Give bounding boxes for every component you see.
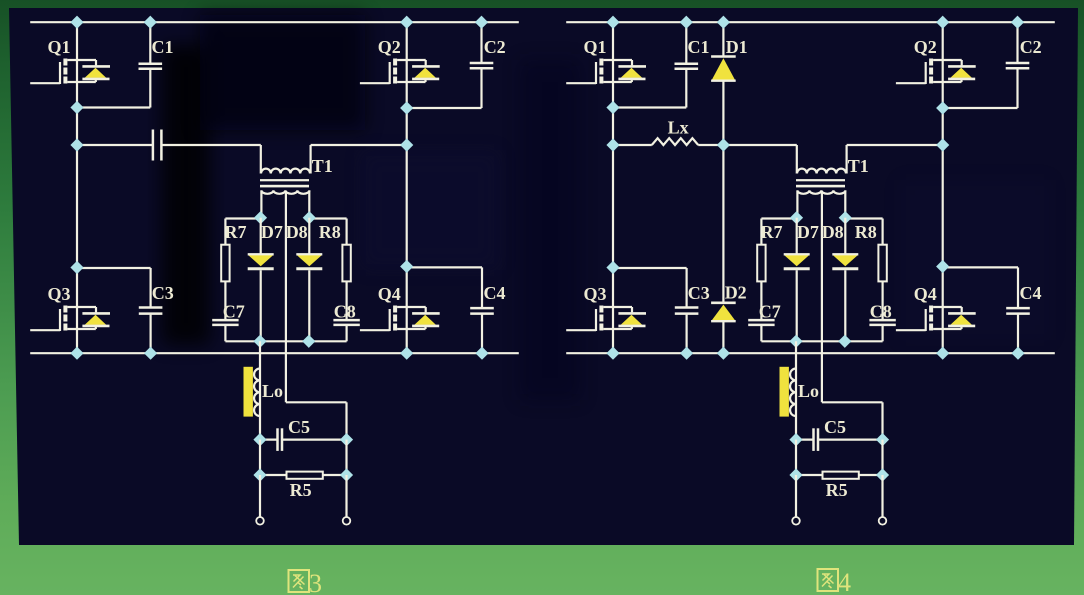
svg-text:Q1: Q1 [48, 37, 71, 57]
svg-text:Q1: Q1 [584, 37, 607, 57]
svg-text:D8: D8 [822, 222, 844, 242]
svg-text:R5: R5 [290, 480, 312, 500]
svg-text:R7: R7 [225, 222, 247, 242]
svg-text:R8: R8 [319, 222, 341, 242]
svg-text:C3: C3 [688, 283, 710, 303]
svg-text:D8: D8 [286, 222, 308, 242]
svg-text:Q4: Q4 [378, 284, 401, 304]
svg-text:R8: R8 [855, 222, 877, 242]
svg-text:D1: D1 [726, 37, 748, 57]
svg-text:C1: C1 [688, 37, 710, 57]
svg-text:T1: T1 [848, 156, 869, 176]
svg-text:3: 3 [309, 569, 322, 595]
svg-text:C4: C4 [484, 283, 506, 303]
svg-text:C7: C7 [759, 302, 781, 322]
svg-text:Q2: Q2 [914, 37, 937, 57]
svg-text:C8: C8 [334, 302, 356, 322]
svg-text:Q2: Q2 [378, 37, 401, 57]
svg-text:R7: R7 [761, 222, 783, 242]
svg-text:C1: C1 [152, 37, 174, 57]
svg-text:T1: T1 [312, 156, 333, 176]
svg-text:Q3: Q3 [48, 284, 71, 304]
svg-text:Q3: Q3 [584, 284, 607, 304]
svg-text:Q4: Q4 [914, 284, 937, 304]
svg-text:C2: C2 [1020, 37, 1042, 57]
svg-text:4: 4 [838, 568, 851, 595]
svg-text:C5: C5 [288, 417, 310, 437]
svg-text:D7: D7 [797, 222, 819, 242]
svg-text:C2: C2 [484, 37, 506, 57]
svg-text:Lo: Lo [798, 381, 819, 401]
svg-text:D7: D7 [261, 222, 283, 242]
svg-text:C5: C5 [824, 417, 846, 437]
svg-text:Lx: Lx [668, 118, 689, 138]
svg-text:Lo: Lo [262, 381, 283, 401]
svg-text:C4: C4 [1020, 283, 1042, 303]
svg-text:D2: D2 [725, 283, 747, 303]
svg-text:C7: C7 [223, 302, 245, 322]
svg-text:R5: R5 [826, 480, 848, 500]
svg-text:C3: C3 [152, 283, 174, 303]
svg-text:C8: C8 [870, 302, 892, 322]
